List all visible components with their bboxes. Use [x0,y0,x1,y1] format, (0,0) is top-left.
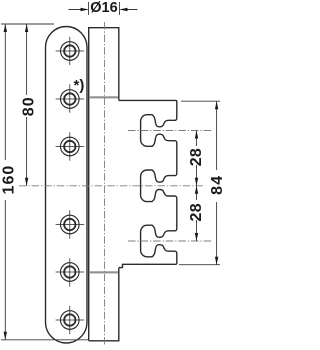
svg-text:80: 80 [20,96,37,116]
svg-text:160: 160 [1,165,18,195]
svg-text:28: 28 [188,203,205,221]
svg-text:Ø16: Ø16 [90,0,117,16]
svg-text:84: 84 [209,175,224,195]
svg-text:28: 28 [188,148,205,166]
svg-text:*): *) [74,77,85,94]
